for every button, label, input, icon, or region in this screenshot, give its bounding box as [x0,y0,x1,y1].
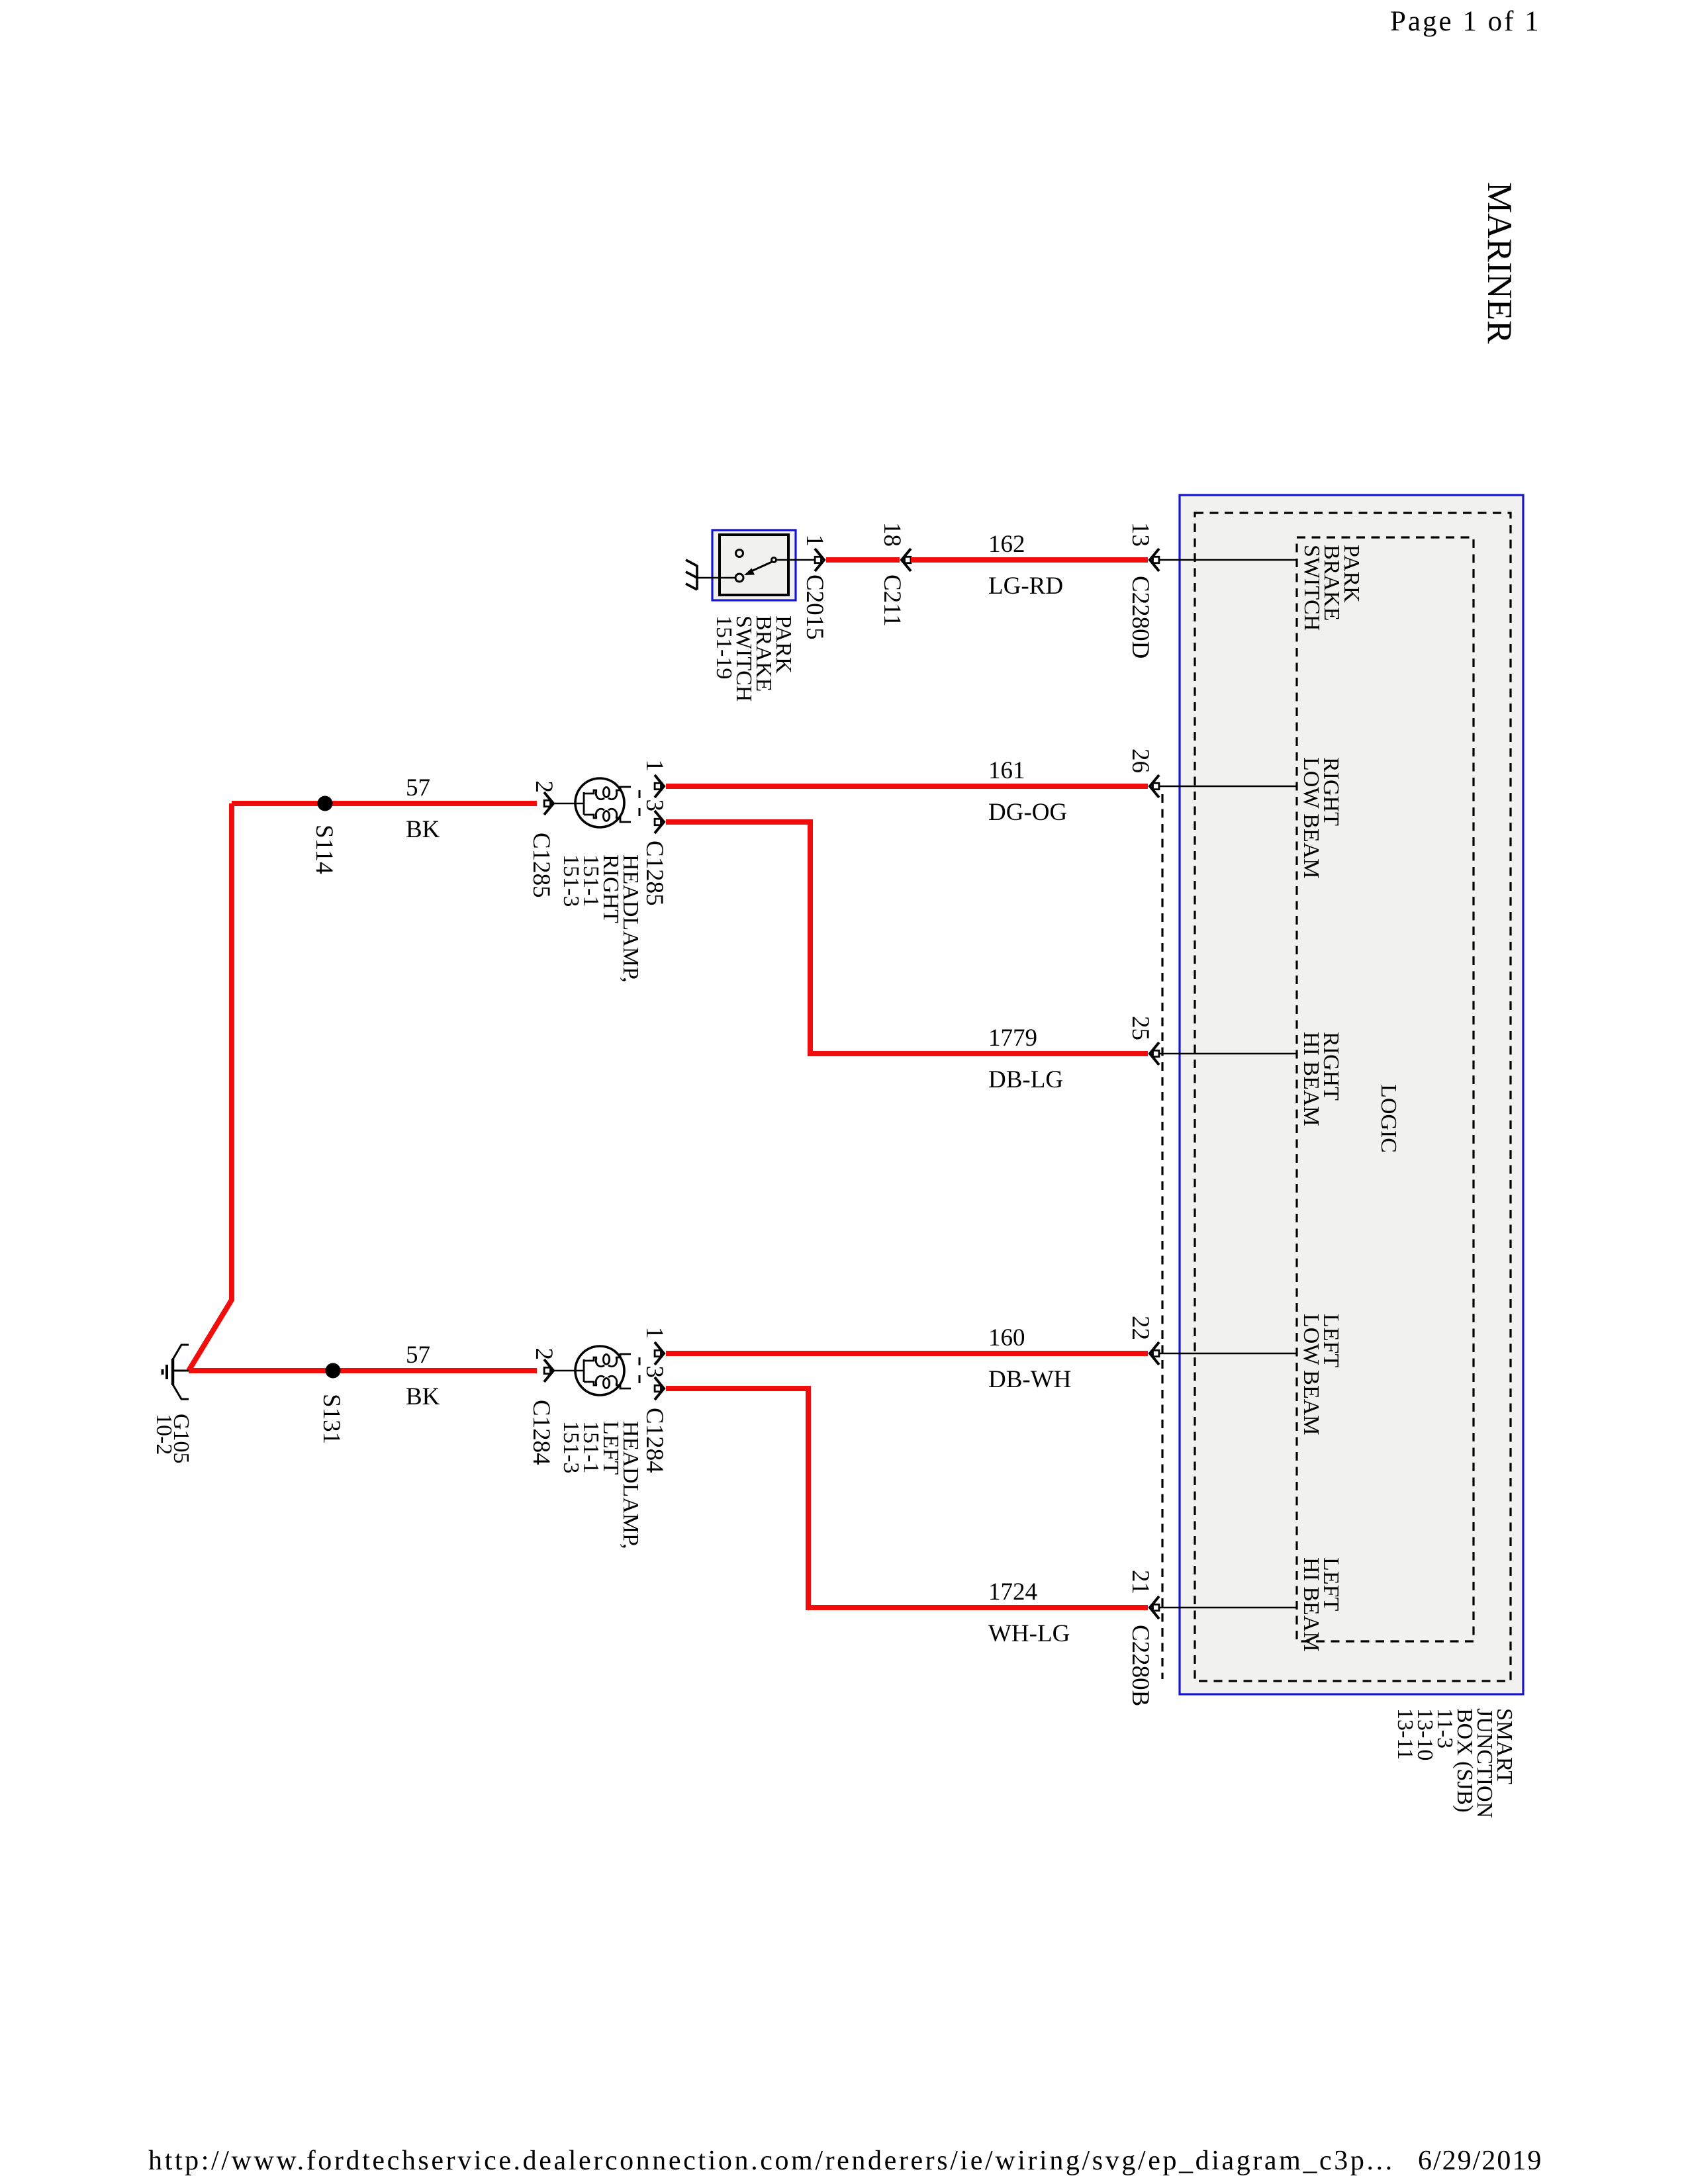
wire switch pivot to pin 1 [776,559,815,561]
svg-text:151-3: 151-3 [559,1421,583,1473]
svg-text:C1285: C1285 [528,833,555,898]
svg-text:HI BEAM: HI BEAM [1299,1032,1323,1126]
headlamp right bulb circle [575,778,624,827]
svg-text:C2280D: C2280D [1127,576,1154,659]
case ground symbol at park brake switch [686,560,697,590]
svg-text:1779: 1779 [988,1024,1037,1052]
headlamp left connector dashes C1284 [639,1357,641,1387]
in-line connector C211 [902,549,911,571]
svg-text:26: 26 [1127,749,1154,773]
headlamp right filaments [584,787,631,822]
svg-text:HI BEAM: HI BEAM [1299,1557,1323,1652]
svg-text:LOW BEAM: LOW BEAM [1299,1314,1323,1435]
svg-text:LOGIC: LOGIC [1376,1084,1401,1153]
svg-text:C1285: C1285 [641,841,668,906]
svg-text:WH-LG: WH-LG [988,1620,1070,1647]
svg-text:BK: BK [406,816,440,843]
svg-text:DG-OG: DG-OG [988,799,1067,826]
wire 160 DB-WH left low beam [666,1351,1148,1356]
park brake switch contact circle (open) [736,550,743,557]
splice S131 [326,1363,341,1379]
wire 161 DG-OG right low beam [666,784,1148,789]
svg-text:SWITCH: SWITCH [1299,545,1324,631]
headlamp right pin 3 arrow [655,811,664,833]
svg-text:22: 22 [1127,1316,1154,1340]
wire 1779 DB-LG right hi beam [666,822,1148,1054]
SJB outer dashed boundary [1195,513,1511,1681]
wire 162 LG-RD segment C211 to SJB pin 13 [911,557,1148,563]
svg-text:S114: S114 [310,825,338,874]
svg-text:18: 18 [878,522,906,547]
svg-text:2: 2 [530,781,557,794]
headlamp right pin 1 arrow [655,775,664,797]
headlamp left bulb circle [575,1346,624,1395]
svg-text:Page 1 of 1: Page 1 of 1 [1390,6,1541,37]
headlamp right pin 2 arrow [544,792,553,815]
svg-text:DB-WH: DB-WH [988,1366,1071,1393]
park brake switch pivot circle [772,558,776,563]
svg-text:MARINER: MARINER [1480,182,1519,344]
svg-text:6/29/2019: 6/29/2019 [1418,2146,1542,2176]
park brake switch common contact circle [735,574,743,582]
wire 1724 WH-LG left hi beam [666,1388,1148,1608]
SJB pin 25 arrow [1150,1042,1159,1065]
svg-text:C2280B: C2280B [1127,1625,1154,1706]
svg-text:57: 57 [406,774,430,801]
svg-text:3: 3 [641,799,668,812]
headlamp left pin 2 lead [550,1370,584,1372]
svg-text:BK: BK [406,1383,440,1410]
svg-text:C2015: C2015 [801,574,828,640]
svg-text:151-19: 151-19 [712,615,736,679]
headlamp left pin 1 arrow [655,1342,664,1365]
headlamp left pin 3 arrow [655,1377,664,1400]
svg-text:10-2: 10-2 [152,1414,176,1455]
splice S114 [318,796,333,811]
connector C2015 pin 1 arrow [815,549,824,571]
svg-text:C1284: C1284 [528,1400,555,1465]
svg-text:1: 1 [641,1327,668,1340]
svg-text:LOW BEAM: LOW BEAM [1299,757,1323,879]
svg-text:1: 1 [801,535,828,547]
svg-text:3: 3 [641,1366,668,1379]
svg-text:25: 25 [1127,1016,1154,1040]
svg-text:160: 160 [988,1324,1025,1351]
headlamp left pin 2 arrow [544,1359,553,1382]
svg-text:13: 13 [1127,522,1154,547]
Smart Junction Box (SJB) outline [1180,495,1523,1694]
headlamp right pin 2 lead [550,803,584,805]
wire 162 LG-RD segment C2015 to C211 [826,557,900,563]
svg-text:C1284: C1284 [641,1408,668,1473]
svg-text:1724: 1724 [988,1578,1037,1606]
svg-text:57: 57 [406,1342,430,1369]
svg-text:21: 21 [1127,1570,1154,1594]
svg-text:151-3: 151-3 [559,854,583,907]
svg-text:162: 162 [988,531,1025,558]
connector C2280 dashed boundary line [1161,794,1163,1679]
svg-text:1: 1 [641,760,668,772]
park brake switch arm with arrowhead [750,562,772,572]
SJB pin 13 arrow C2280D [1150,549,1159,571]
svg-text:C211: C211 [878,574,906,627]
SJB pin 22 arrow [1150,1342,1159,1365]
headlamp right connector dashes C1285 [639,790,641,819]
park brake switch SW1 component box [712,530,796,600]
svg-text:13-11: 13-11 [1393,1708,1417,1760]
ground trunk wire down to G105 [189,803,232,1371]
SJB pin 26 arrow [1150,775,1159,797]
wire from switch common to case ground [697,577,735,579]
svg-text:161: 161 [988,757,1025,784]
headlamp left filaments [584,1354,631,1388]
svg-text:S131: S131 [318,1394,345,1444]
wire 57 BK from G105 to left headlamp pin 2 [189,1368,537,1373]
svg-text:DB-LG: DB-LG [988,1066,1063,1093]
svg-text:http://www.fordtechservice.dea: http://www.fordtechservice.dealerconnect… [148,2146,1395,2176]
SJB pin 21 arrow C2280B [1150,1596,1159,1619]
svg-text:LG-RD: LG-RD [988,572,1063,600]
SJB inner dashed LOGIC box [1297,537,1474,1641]
svg-text:2: 2 [530,1348,557,1361]
ground G105 symbol [163,1345,189,1399]
wire 57 BK from S114 to right headlamp pin 2 [232,801,537,806]
